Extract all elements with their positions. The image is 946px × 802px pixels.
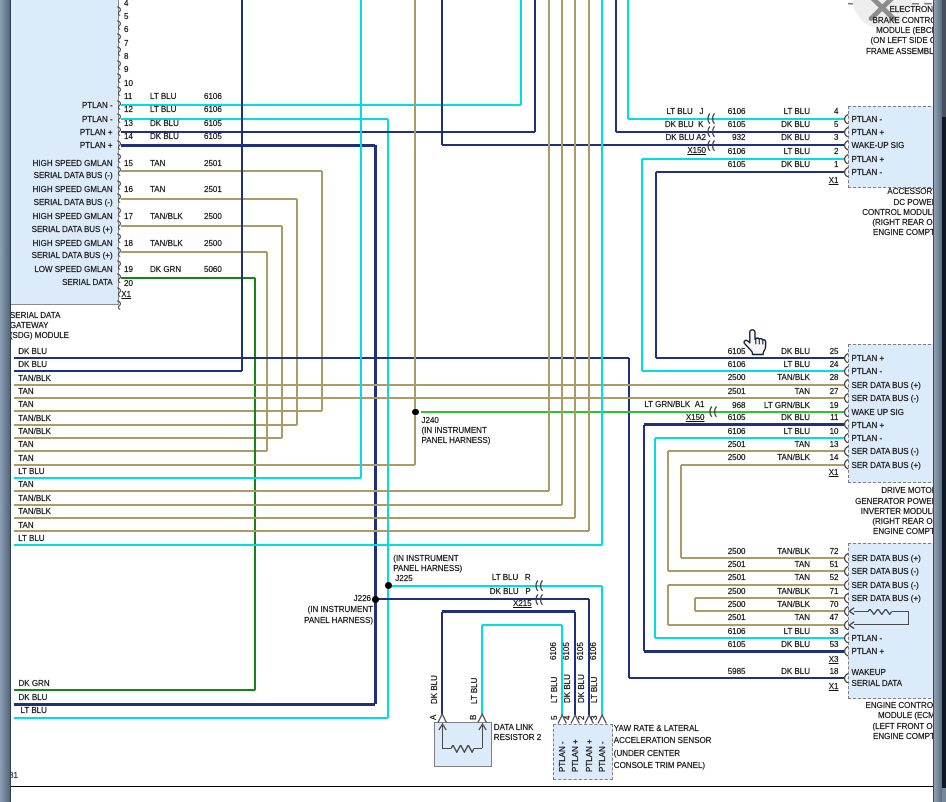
wire pin17 TAN/BLK 2500 to SDG row7 xyxy=(121,225,282,227)
wire row13 TAN 2501 to row51 SER DATA BUS- xyxy=(668,450,844,452)
wire pin12 LT BLU 6106 trunk down to bottom LT BLU row xyxy=(121,118,388,120)
caption YAW RATE AND LATERAL ACCELERATION SENSOR xyxy=(614,724,699,734)
cavity brackets bottom right box xyxy=(841,553,849,564)
labels X215 LT BLU R DK BLU P xyxy=(492,573,531,583)
labels rotated yaw circuit numbers 6106 6105 6105 6106 xyxy=(549,642,559,660)
junction splice J240 xyxy=(412,409,419,416)
wire SDG row3 TAN/BLK to row28 SER DATA BUS+ xyxy=(14,384,845,386)
close button X icon top right xyxy=(845,0,921,32)
bottom left wire labels DK GRN DK BLU LT BLU xyxy=(19,679,50,689)
label SERIAL DATA GATEWAY (SDG) MODULE xyxy=(10,311,61,321)
wire SDG row9 TAN through J240 splice to top edge xyxy=(414,0,416,465)
wire pin19 DK GRN 5060 to bottom DK GRN row xyxy=(121,277,255,279)
wire J225 branch LT BLU to yaw sensor pin3 xyxy=(390,585,602,587)
labels LT GRN/BLK A1 X150 xyxy=(644,400,704,410)
terminal chevron resistor pin B xyxy=(477,713,487,724)
wire color and circuit labels pins 11-19 xyxy=(150,92,176,102)
wire row14 TAN/BLK 2500 to row72 SER DATA BUS+ xyxy=(681,464,844,466)
right scrollbar thumb xyxy=(933,0,942,802)
caption ACCESSORY DC POWER CONTROL MODULE xyxy=(887,187,937,197)
labels rotated yaw wire colors xyxy=(550,676,560,702)
wire data link resistor pin A DK BLU to yaw pin4 xyxy=(441,612,443,714)
labels rotated yaw pin numbers 5 4 2 3 xyxy=(550,715,560,719)
wire SDG row13 TAN/BLK to top edge xyxy=(14,517,575,519)
mouse hand cursor xyxy=(743,329,767,356)
labels row1 6105 DK BLU 1 PTLAN- xyxy=(728,160,746,170)
junction splice J226 xyxy=(372,596,379,603)
dashed edge of off-screen EBCM connector box (top right) xyxy=(848,2,933,6)
inline connector arcs X150 row19 A1 xyxy=(706,406,722,418)
module box DRIVE MOTOR GENERATOR POWER INVERTER MODULE connector (middle right) xyxy=(848,344,946,484)
wire row2 LT BLU 6106 to row24 PTLAN- xyxy=(642,158,844,160)
module box ENGINE CONTROL MODULE connector (bottom right) xyxy=(848,543,946,699)
wire row71 TAN/BLK 2500 to row70 xyxy=(695,597,844,599)
wire row5 DK BLU K 6105 PTLAN+ from top edge xyxy=(615,0,617,132)
pin numbers 4-20 and X1 of SDG connector xyxy=(124,0,128,9)
inline connector arcs X150 row3 A2 xyxy=(704,140,720,152)
labels rotated yaw PTLAN pins xyxy=(558,741,568,772)
terminal chevron yaw pin2 xyxy=(584,714,594,725)
SDG module connector box (top-left) xyxy=(6,0,119,305)
cavity brackets top right box xyxy=(841,114,849,125)
wire pin15 TAN 2501 to SDG row5 xyxy=(121,170,322,172)
label X3 xyxy=(829,655,839,665)
wire row1 DK BLU 6105 to row25 PTLAN+ xyxy=(656,171,844,173)
wire pin14 DK BLU 6105 trunk down to bottom DK BLU row xyxy=(121,144,375,146)
wire pin11 LT BLU 6106 to top edge xyxy=(121,104,521,106)
label X1 bottom right box xyxy=(829,682,839,692)
wire row4 LT BLU J 6106 PTLAN- from top edge xyxy=(627,0,629,119)
wire pin13 DK BLU 6105 to top edge xyxy=(121,131,535,133)
SDG connector cavity brackets xyxy=(116,6,124,17)
labels row4 LT BLU J 6106 4 PTLAN- xyxy=(666,107,703,117)
page number 81 xyxy=(9,771,18,781)
inline connector arcs X215 P xyxy=(532,594,548,606)
wire X150 DK BLU 932 row3 from top edge xyxy=(441,0,443,145)
inline connector arcs X215 R xyxy=(532,580,548,592)
wire data link resistor pin B LT BLU to yaw pin5 xyxy=(481,625,483,714)
wire J226 branch DK BLU to yaw sensor pin2 xyxy=(377,598,588,600)
labels row3 DK BLU A2 X150 932 3 WAKE-UP SIG xyxy=(666,133,706,143)
cavity brackets middle right box xyxy=(841,353,849,364)
caption ENGINE CONTROL MODULE ECM xyxy=(865,701,937,711)
label DATA LINK RESISTOR 2 xyxy=(494,723,534,733)
wire SDG row12 TAN/BLK to top edge xyxy=(14,504,562,506)
label J225 IN INSTRUMENT PANEL HARNESS xyxy=(393,554,458,564)
module box ACCESSORY DC POWER CONTROL MODULE connector (top right) xyxy=(848,106,946,188)
DATA LINK RESISTOR 2 box xyxy=(434,722,492,767)
inline connector arcs row4 J xyxy=(704,113,720,125)
wire LT GRN/BLK 968 row19 WAKE UP SIG from J240 xyxy=(421,411,844,413)
labels middle right box rows xyxy=(728,347,746,357)
terminal chevron yaw pin5 xyxy=(557,714,567,725)
label J226 IN INSTRUMENT PANEL HARNESS xyxy=(354,594,371,604)
left window edge strip xyxy=(0,0,11,802)
wire SDG row4 TAN to row27 SER DATA BUS- xyxy=(14,397,845,399)
wire SDG row14 TAN to top edge xyxy=(14,530,589,532)
caption ELECTRONIC BRAKE CONTROL MODULE EBCM xyxy=(889,5,941,15)
wire SDG row2 DK BLU to top edge xyxy=(14,370,243,372)
wire SDG row15 LT BLU to top edge xyxy=(14,544,603,546)
page frame bottom line xyxy=(10,786,934,788)
caption DRIVE MOTOR GENERATOR POWER INVERTER MODULE xyxy=(881,486,937,496)
SDG connector pin function labels xyxy=(82,101,113,111)
labels row2 6106 LT BLU 2 PTLAN+ xyxy=(728,147,746,157)
junction splice J225 xyxy=(385,582,392,589)
label J240 IN INSTRUMENT PANEL HARNESS xyxy=(422,416,439,426)
wire row52 TAN 2501 to row47 xyxy=(668,584,844,586)
wire row11 DK BLU 6105 to row53 PTLAN+ xyxy=(644,423,844,425)
resistor internal ECM rows 70-47 with left arrows xyxy=(848,607,855,615)
label X1 top right box xyxy=(829,176,839,186)
terminal chevron yaw pin4 xyxy=(570,714,580,725)
terminal chevron resistor pin A xyxy=(437,713,447,724)
wire row10 LT BLU 6106 to row33 PTLAN- xyxy=(655,437,844,439)
wire pin16 TAN 2501 to SDG row6 xyxy=(121,198,297,200)
labels row18 5985 DK BLU 18 WAKEUP SERIAL DATA xyxy=(728,667,746,677)
resistor R DATA LINK RESISTOR 2 internal symbol xyxy=(442,725,443,741)
terminal chevron yaw pin3 xyxy=(597,714,607,725)
SDG row wire color labels xyxy=(18,347,47,357)
wire pin18 TAN/BLK 2500 to SDG row8 xyxy=(121,251,267,253)
wire SDG row10 LT BLU to top edge xyxy=(14,477,362,479)
label X1 middle right box xyxy=(829,468,839,478)
inline connector arcs row5 K xyxy=(704,126,720,138)
right scrollbar track dark xyxy=(941,0,946,802)
labels bottom right box rows xyxy=(728,547,746,557)
labels row5 DK BLU K 6105 5 PTLAN+ xyxy=(665,120,704,130)
YAW RATE sensor box xyxy=(553,724,612,780)
wire SDG row11 TAN to top edge xyxy=(14,490,549,492)
labels rotated resistor pins A B DK BLU LT BLU xyxy=(430,675,440,704)
wire SDG row1 DK BLU to ECM row18 WAKEUP xyxy=(14,357,629,359)
